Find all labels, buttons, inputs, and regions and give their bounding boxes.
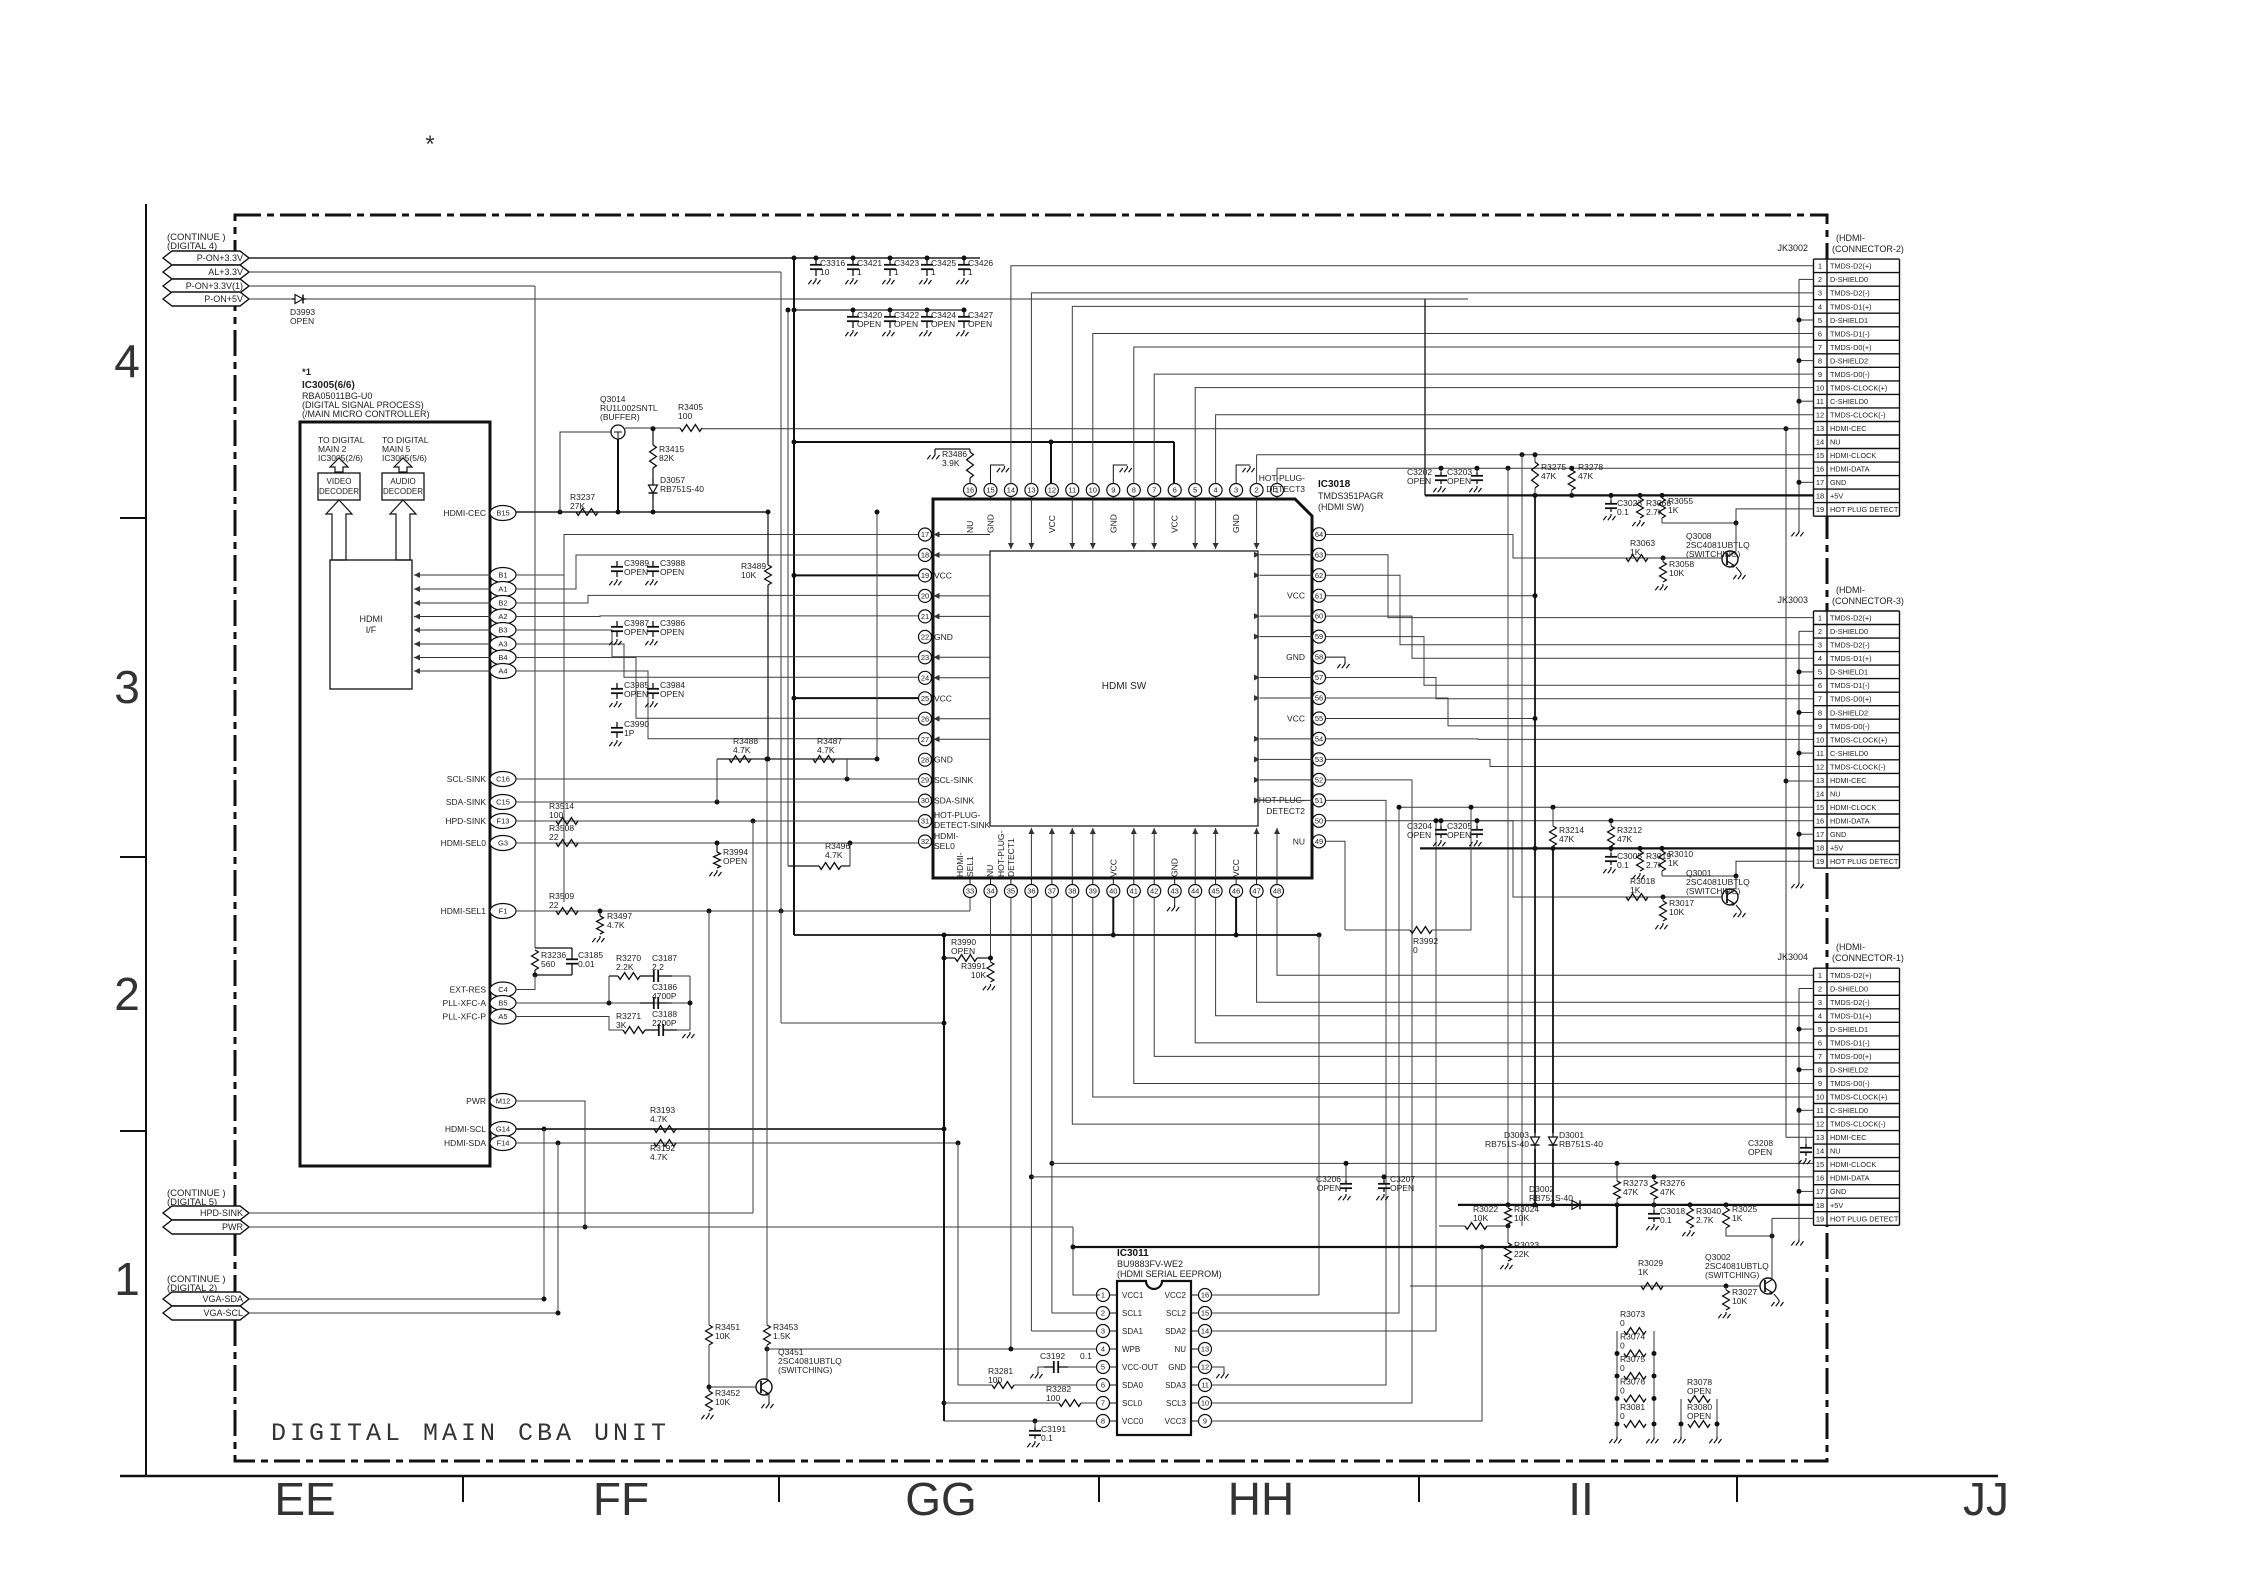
resistor R3025 bbox=[1725, 1205, 1727, 1208]
svg-text:D-SHIELD0: D-SHIELD0 bbox=[1830, 627, 1868, 636]
svg-text:5: 5 bbox=[1818, 668, 1822, 677]
svg-text:60: 60 bbox=[1315, 612, 1323, 621]
diode D3003 bbox=[1534, 1133, 1536, 1137]
svg-text:0.1: 0.1 bbox=[1041, 1433, 1053, 1443]
svg-text:B2: B2 bbox=[498, 599, 507, 608]
ground bbox=[682, 1032, 694, 1038]
svg-text:4: 4 bbox=[114, 335, 140, 387]
net HOT PLUG DETECT jk3002 bbox=[1662, 509, 1814, 523]
junction bbox=[1615, 1396, 1620, 1401]
junction bbox=[848, 841, 853, 846]
svg-text:0.1: 0.1 bbox=[1660, 1215, 1672, 1225]
IC3018 pin 62 bbox=[1313, 569, 1326, 582]
svg-text:18: 18 bbox=[921, 551, 929, 560]
svg-text:15: 15 bbox=[1816, 803, 1824, 812]
capacitor C3191 bbox=[1034, 1421, 1036, 1427]
IC3018 pin 56 bbox=[1313, 692, 1326, 705]
svg-text:82K: 82K bbox=[659, 453, 674, 463]
svg-text:1: 1 bbox=[1818, 614, 1822, 623]
svg-text:52: 52 bbox=[1315, 776, 1323, 785]
arrow into HDMI I/F bbox=[414, 602, 490, 604]
junction bbox=[1551, 846, 1556, 851]
svg-text:HDMI-SEL1: HDMI-SEL1 bbox=[441, 906, 487, 916]
svg-text:D-SHIELD1: D-SHIELD1 bbox=[1830, 316, 1868, 325]
wire bbox=[957, 1143, 959, 1385]
flag HPD-SINK bbox=[163, 1206, 249, 1220]
svg-text:JJ: JJ bbox=[1963, 1473, 2009, 1525]
wire bbox=[766, 759, 768, 1325]
wire core to pin 63 bbox=[1260, 554, 1312, 556]
svg-text:11: 11 bbox=[1816, 1106, 1824, 1115]
IC3018 pin 4 bbox=[1209, 484, 1222, 497]
wire pin 39 into core bbox=[1092, 828, 1094, 878]
IC3011 pin 9 bbox=[1199, 1415, 1212, 1428]
arrow audio decoder from hdmi if bbox=[390, 500, 416, 560]
junction bbox=[556, 1311, 561, 1316]
svg-text:13: 13 bbox=[1816, 424, 1824, 433]
wire hdmi data 5 bbox=[516, 644, 919, 677]
IC3018 pin 34 bbox=[984, 885, 997, 898]
svg-text:IC3011: IC3011 bbox=[1117, 1248, 1149, 1259]
net pullup rail bbox=[717, 758, 877, 760]
wire core to pin 21 bbox=[934, 615, 991, 617]
capacitor C3426 bbox=[963, 258, 965, 265]
wire pin 11 into core bbox=[1071, 499, 1073, 549]
flag P-ON+3.3V(1) bbox=[163, 279, 249, 293]
svg-text:3: 3 bbox=[114, 661, 140, 713]
svg-text:DECODER: DECODER bbox=[383, 487, 423, 496]
wire to IC3011 SCL1 bbox=[1052, 1312, 1110, 1314]
svg-text:HDMI: HDMI bbox=[360, 614, 383, 624]
svg-text:16: 16 bbox=[1816, 1174, 1824, 1183]
op-amp U-IC3018 body outline bbox=[933, 499, 1312, 878]
svg-text:0.1: 0.1 bbox=[1617, 860, 1629, 870]
svg-text:4: 4 bbox=[1101, 1345, 1105, 1354]
capacitor C3424 bbox=[926, 310, 928, 317]
svg-text:D-SHIELD0: D-SHIELD0 bbox=[1830, 275, 1868, 284]
resistor R3488 bbox=[729, 756, 751, 763]
junction bbox=[988, 956, 993, 961]
svg-text:13: 13 bbox=[1816, 1133, 1824, 1142]
wire TMDS to JK3003 bbox=[1326, 555, 1814, 618]
svg-text:7: 7 bbox=[1818, 1052, 1822, 1061]
svg-text:SDA0: SDA0 bbox=[1122, 1381, 1143, 1390]
IC3011 pin 7 bbox=[1097, 1397, 1110, 1410]
svg-text:38: 38 bbox=[1068, 887, 1076, 896]
IC3018 pin 61 bbox=[1313, 589, 1326, 602]
wire core to pin 57 bbox=[1260, 677, 1312, 679]
svg-text:*1: *1 bbox=[302, 367, 312, 378]
svg-text:OPEN: OPEN bbox=[1748, 1147, 1772, 1157]
IC3018 pin 6 bbox=[1168, 484, 1181, 497]
junction bbox=[1734, 521, 1739, 526]
svg-text:8: 8 bbox=[1818, 1066, 1822, 1075]
svg-text:OPEN: OPEN bbox=[968, 319, 992, 329]
IC3011 pin 15 bbox=[1199, 1307, 1212, 1320]
svg-text:TMDS-D2(-): TMDS-D2(-) bbox=[1830, 998, 1870, 1007]
svg-text:OPEN: OPEN bbox=[660, 567, 684, 577]
svg-text:GG: GG bbox=[905, 1473, 977, 1525]
resistor R3080 bbox=[1688, 1421, 1710, 1428]
svg-text:0.1: 0.1 bbox=[1080, 1351, 1092, 1361]
svg-text:11: 11 bbox=[1068, 486, 1076, 495]
svg-text:IC3018: IC3018 bbox=[1318, 479, 1351, 490]
wire bbox=[535, 947, 572, 949]
wire bbox=[1735, 523, 1737, 551]
svg-text:VCC: VCC bbox=[1231, 859, 1241, 877]
resistor R3271 bbox=[623, 1027, 645, 1034]
svg-text:47K: 47K bbox=[1578, 471, 1593, 481]
wire TMDS to JK3002 bbox=[1154, 374, 1813, 483]
svg-text:10K: 10K bbox=[715, 1331, 730, 1341]
wire pin 4 into core bbox=[1215, 499, 1217, 549]
svg-text:47: 47 bbox=[1252, 887, 1260, 896]
svg-text:47K: 47K bbox=[1617, 834, 1632, 844]
wire P-ON+5V cont bbox=[306, 298, 1468, 300]
IC3018 pin 2 bbox=[1250, 484, 1263, 497]
svg-text:4: 4 bbox=[1818, 302, 1822, 311]
svg-text:47K: 47K bbox=[1541, 471, 1556, 481]
wire hdmi data 1 bbox=[516, 555, 919, 589]
svg-text:BU9883FV-WE2: BU9883FV-WE2 bbox=[1117, 1259, 1183, 1269]
svg-text:1: 1 bbox=[1818, 262, 1822, 271]
IC3018 pin 25 bbox=[919, 692, 932, 705]
svg-text:4700P: 4700P bbox=[652, 991, 677, 1001]
ground hook pin43 bbox=[1174, 898, 1176, 906]
arrow to video decoder bbox=[330, 458, 348, 472]
svg-text:VCC1: VCC1 bbox=[1122, 1291, 1144, 1300]
net VGA-SCL bbox=[249, 1312, 558, 1314]
net PLL-XFC-A bbox=[516, 1002, 666, 1004]
svg-text:TMDS-D0(-): TMDS-D0(-) bbox=[1830, 722, 1870, 731]
svg-text:GND: GND bbox=[1231, 514, 1241, 533]
svg-text:HDMI-CEC: HDMI-CEC bbox=[1830, 776, 1866, 785]
svg-text:4.7K: 4.7K bbox=[825, 850, 843, 860]
junction bbox=[875, 757, 880, 762]
net VCC2 bbox=[1212, 1294, 1320, 1296]
resistor R3496 bbox=[788, 865, 819, 867]
junction bbox=[1234, 933, 1239, 938]
wire bbox=[557, 1143, 559, 1313]
svg-text:OPEN: OPEN bbox=[1407, 830, 1431, 840]
net +5V eeprom rail bbox=[1073, 1246, 1617, 1248]
svg-text:D-SHIELD2: D-SHIELD2 bbox=[1830, 708, 1868, 717]
svg-text:II: II bbox=[1568, 1473, 1594, 1525]
svg-text:61: 61 bbox=[1315, 591, 1323, 600]
junction bbox=[942, 956, 947, 961]
wire bbox=[752, 821, 754, 1213]
svg-text:11: 11 bbox=[1816, 749, 1824, 758]
net VCC bottom rail bbox=[794, 934, 1319, 936]
svg-text:GND: GND bbox=[1170, 858, 1180, 877]
wire TMDS to JK3003 bbox=[1326, 759, 1814, 766]
wire TMDS to JK3004 bbox=[1093, 898, 1813, 1098]
ground bbox=[1736, 905, 1741, 911]
svg-text:F1: F1 bbox=[499, 907, 508, 916]
svg-text:TMDS-D0(-): TMDS-D0(-) bbox=[1830, 370, 1870, 379]
svg-text:18: 18 bbox=[1816, 1201, 1824, 1210]
svg-text:0.1: 0.1 bbox=[1617, 507, 1629, 517]
arrow into HDMI I/F bbox=[414, 643, 490, 645]
svg-text:TMDS-D0(+): TMDS-D0(+) bbox=[1830, 343, 1872, 352]
svg-text:2: 2 bbox=[1818, 627, 1822, 636]
svg-text:SDA1: SDA1 bbox=[1122, 1327, 1143, 1336]
capacitor C3425 bbox=[926, 258, 928, 265]
IC3005 body bbox=[300, 422, 490, 1166]
capacitor C3005 bbox=[1610, 848, 1612, 853]
IC3018 pin 57 bbox=[1313, 671, 1326, 684]
junction bbox=[766, 757, 771, 762]
svg-text:3.9K: 3.9K bbox=[942, 458, 960, 468]
svg-text:(CONNECTOR-1): (CONNECTOR-1) bbox=[1832, 953, 1904, 963]
svg-text:GND: GND bbox=[1830, 478, 1846, 487]
svg-text:A4: A4 bbox=[498, 667, 507, 676]
svg-text:C15: C15 bbox=[496, 798, 510, 807]
svg-text:53: 53 bbox=[1315, 755, 1323, 764]
wire hdmi data 7 bbox=[516, 671, 919, 739]
capacitor C3984 bbox=[652, 683, 654, 689]
wire TMDS to JK3002 bbox=[1134, 347, 1813, 484]
svg-text:HDMI-CEC: HDMI-CEC bbox=[1830, 424, 1866, 433]
svg-text:NU: NU bbox=[1174, 1345, 1186, 1354]
wire VCC pin61 feed bbox=[1326, 595, 1536, 597]
IC3018 pin 60 bbox=[1313, 610, 1326, 623]
svg-text:HDMI-: HDMI- bbox=[934, 831, 959, 841]
net SCL-SINK bbox=[516, 778, 919, 780]
wire Q3002 base bbox=[1410, 1285, 1760, 1287]
svg-text:P-ON+3.3V(1): P-ON+3.3V(1) bbox=[186, 281, 243, 291]
wire pin 5 into core bbox=[1194, 499, 1196, 549]
gnd hook pin9 bbox=[1113, 465, 1127, 484]
wire TMDS to JK3004 bbox=[1134, 898, 1813, 1084]
svg-text:10K: 10K bbox=[1514, 1213, 1529, 1223]
IC3018 pin 53 bbox=[1313, 753, 1326, 766]
wire TMDS to JK3004 bbox=[1195, 898, 1813, 1043]
junction bbox=[1724, 1202, 1729, 1207]
wire core to pin 18 bbox=[934, 554, 991, 556]
arrow into HDMI I/F bbox=[414, 670, 490, 672]
svg-text:11: 11 bbox=[1816, 397, 1824, 406]
junction bbox=[688, 1001, 693, 1006]
IC3011 pin 14 bbox=[1199, 1325, 1212, 1338]
IC3018 pin 10 bbox=[1086, 484, 1099, 497]
svg-text:45: 45 bbox=[1211, 887, 1219, 896]
svg-text:TMDS-D0(+): TMDS-D0(+) bbox=[1830, 1052, 1872, 1061]
wire Q3014 out bbox=[625, 427, 680, 429]
wire TMDS to JK3003 bbox=[1326, 678, 1814, 699]
svg-text:A3: A3 bbox=[498, 640, 507, 649]
svg-text:1: 1 bbox=[931, 267, 936, 277]
svg-text:TMDS-CLOCK(-): TMDS-CLOCK(-) bbox=[1830, 762, 1886, 771]
junction bbox=[558, 510, 563, 515]
svg-text:D-SHIELD1: D-SHIELD1 bbox=[1830, 1025, 1868, 1034]
flag P-ON+5V bbox=[163, 292, 249, 306]
svg-text:B4: B4 bbox=[498, 653, 507, 662]
svg-text:TMDS-D1(-): TMDS-D1(-) bbox=[1830, 681, 1870, 690]
svg-text:(SWITCHING): (SWITCHING) bbox=[1705, 1270, 1759, 1280]
svg-text:VCC: VCC bbox=[934, 693, 952, 703]
svg-text:16: 16 bbox=[1201, 1291, 1209, 1300]
svg-text:19: 19 bbox=[1816, 1214, 1824, 1223]
junction bbox=[792, 573, 797, 578]
wire bbox=[846, 759, 848, 779]
capacitor C3427 bbox=[963, 310, 965, 317]
wire CEC to JK3004 pin13 bbox=[1786, 1136, 1813, 1138]
svg-text:OPEN: OPEN bbox=[894, 319, 918, 329]
junction bbox=[942, 1401, 947, 1406]
wire VCC0 bbox=[944, 1420, 1097, 1422]
resistor R3081 bbox=[1624, 1421, 1646, 1428]
IC3011 pin 13 bbox=[1199, 1343, 1212, 1356]
svg-text:(CONNECTOR-2): (CONNECTOR-2) bbox=[1832, 244, 1904, 254]
svg-text:1: 1 bbox=[114, 1253, 140, 1305]
ground bus JK3004 bbox=[1798, 989, 1800, 1240]
wire core to pin 51 bbox=[1260, 799, 1312, 801]
gnd hook pin3 bbox=[1236, 465, 1250, 484]
wire VCC pin55 feed bbox=[1326, 718, 1536, 720]
wire sel1 to pin33 bbox=[969, 898, 971, 911]
net HDMI-DATA jk3004 bbox=[1031, 1176, 1813, 1178]
wire core to pin 53 bbox=[1260, 758, 1312, 760]
resistor R3994 bbox=[716, 843, 718, 852]
svg-text:100: 100 bbox=[1046, 1393, 1060, 1403]
wire pin 48 into core bbox=[1276, 828, 1278, 878]
svg-text:7: 7 bbox=[1818, 343, 1822, 352]
svg-text:TMDS-CLOCK(+): TMDS-CLOCK(+) bbox=[1830, 1093, 1887, 1102]
svg-text:G3: G3 bbox=[498, 839, 508, 848]
ruler tick bbox=[1418, 1476, 1420, 1502]
wire P-ON+5V bbox=[249, 298, 292, 300]
svg-text:0: 0 bbox=[1620, 1363, 1625, 1373]
svg-text:OPEN: OPEN bbox=[1390, 1183, 1414, 1193]
diode D3057 bbox=[652, 468, 654, 478]
svg-text:10: 10 bbox=[1816, 383, 1824, 392]
wire vertical bbox=[563, 535, 565, 903]
svg-text:NU: NU bbox=[1830, 1147, 1841, 1156]
wire pin 10 into core bbox=[1092, 499, 1094, 549]
svg-text:47K: 47K bbox=[1623, 1187, 1638, 1197]
wire pin 47 into core bbox=[1256, 828, 1258, 878]
wire TMDS to JK3003 bbox=[1326, 738, 1814, 741]
junction bbox=[1029, 1174, 1034, 1179]
svg-text:30: 30 bbox=[921, 796, 929, 805]
connector JK3002 (HDMI-CONNECTOR-2) bbox=[1814, 259, 1900, 516]
junction bbox=[792, 696, 797, 701]
svg-text:32: 32 bbox=[921, 837, 929, 846]
svg-text:P-ON+3.3V: P-ON+3.3V bbox=[197, 253, 243, 263]
svg-text:OPEN: OPEN bbox=[1317, 1183, 1341, 1193]
arrow into HDMI I/F bbox=[414, 616, 490, 618]
svg-text:4: 4 bbox=[1818, 1011, 1822, 1020]
svg-text:M12: M12 bbox=[496, 1097, 511, 1106]
svg-text:40: 40 bbox=[1109, 887, 1117, 896]
IC3011 body bbox=[1117, 1281, 1191, 1435]
svg-text:PWR: PWR bbox=[222, 1222, 243, 1232]
wire TMDS to JK3003 bbox=[1326, 616, 1814, 658]
svg-text:SEL1: SEL1 bbox=[965, 856, 975, 877]
svg-text:JK3002: JK3002 bbox=[1777, 243, 1808, 253]
svg-text:17: 17 bbox=[1816, 478, 1824, 487]
IC3018 pin 17 bbox=[919, 528, 932, 541]
svg-text:24: 24 bbox=[921, 673, 929, 682]
svg-text:7: 7 bbox=[1152, 486, 1156, 495]
svg-text:VCC3: VCC3 bbox=[1165, 1417, 1187, 1426]
wire core to pin 54 bbox=[1260, 738, 1312, 740]
svg-text:23: 23 bbox=[921, 653, 929, 662]
arrow into HDMI I/F bbox=[414, 657, 490, 659]
svg-text:1P: 1P bbox=[624, 728, 635, 738]
svg-text:HPD-SINK: HPD-SINK bbox=[200, 1208, 243, 1218]
junction bbox=[888, 256, 893, 261]
arrow video decoder from hdmi if bbox=[326, 500, 352, 560]
IC3018 pin 52 bbox=[1313, 773, 1326, 786]
svg-text:11: 11 bbox=[1201, 1381, 1209, 1390]
net HDMI-CLOCK jk3004 bbox=[1052, 1162, 1813, 1164]
resistor R3027 bbox=[1725, 1286, 1727, 1290]
svg-text:C-SHIELD0: C-SHIELD0 bbox=[1830, 749, 1868, 758]
capacitor C3420 bbox=[852, 310, 854, 317]
svg-text:VCC2: VCC2 bbox=[1165, 1291, 1187, 1300]
svg-text:HDMI-CLOCK: HDMI-CLOCK bbox=[1830, 803, 1876, 812]
resistor R3058 bbox=[1662, 558, 1664, 562]
IC3018 pin 44 bbox=[1189, 885, 1202, 898]
IC3018 pin 29 bbox=[919, 774, 932, 787]
resistor R3022 bbox=[1439, 1225, 1465, 1227]
IC3018 pin 47 bbox=[1250, 885, 1263, 898]
svg-text:HDMI-CEC: HDMI-CEC bbox=[444, 508, 487, 518]
net HOT-PLUG-DETECT2 bbox=[1326, 821, 1561, 897]
svg-text:TMDS-CLOCK(+): TMDS-CLOCK(+) bbox=[1830, 383, 1887, 392]
diode D3993 bbox=[292, 298, 295, 300]
net HDMI-SCL bbox=[516, 1128, 944, 1130]
resistor R3236 bbox=[532, 950, 539, 970]
svg-text:25: 25 bbox=[921, 694, 929, 703]
resistor R3073 bbox=[1624, 1328, 1646, 1335]
arrow into HDMI I/F bbox=[414, 629, 490, 631]
svg-text:TMDS-D1(-): TMDS-D1(-) bbox=[1830, 329, 1870, 338]
arrow to audio decoder bbox=[394, 458, 412, 472]
IC3018 pin 38 bbox=[1066, 885, 1079, 898]
wire VCC stub pin25 bbox=[794, 697, 919, 699]
svg-text:OPEN: OPEN bbox=[1447, 830, 1471, 840]
wire PWR riser bbox=[1073, 1227, 1100, 1295]
IC3018 pin 43 bbox=[1168, 885, 1181, 898]
resistor R3076 bbox=[1624, 1395, 1646, 1402]
gnd hook pin15 bbox=[991, 465, 1005, 484]
capacitor C3202 bbox=[1440, 468, 1442, 472]
svg-text:NU: NU bbox=[1830, 438, 1841, 447]
IC3018 pin 50 bbox=[1313, 814, 1326, 827]
svg-text:TMDS-D1(+): TMDS-D1(+) bbox=[1830, 654, 1872, 663]
resistor R3193 bbox=[654, 1126, 676, 1133]
IC3005 pin A2 bbox=[490, 609, 516, 624]
svg-text:2: 2 bbox=[1255, 486, 1259, 495]
svg-text:TMDS-CLOCK(-): TMDS-CLOCK(-) bbox=[1830, 411, 1886, 420]
flag VGA-SCL bbox=[163, 1306, 249, 1320]
IC3018 pin 9 bbox=[1107, 484, 1120, 497]
wire core to pin 62 bbox=[1260, 574, 1312, 576]
IC3018 pin 48 bbox=[1271, 885, 1284, 898]
ground hook pin12 bbox=[1212, 1367, 1225, 1372]
svg-text:13: 13 bbox=[1201, 1345, 1209, 1354]
junction bbox=[715, 800, 720, 805]
IC3005 pin B1 bbox=[490, 568, 516, 583]
svg-text:19: 19 bbox=[1816, 857, 1824, 866]
svg-text:47K: 47K bbox=[1559, 834, 1574, 844]
svg-text:8: 8 bbox=[1818, 356, 1822, 365]
svg-text:15: 15 bbox=[1816, 1160, 1824, 1169]
svg-text:TMDS-CLOCK(-): TMDS-CLOCK(-) bbox=[1830, 1120, 1886, 1129]
